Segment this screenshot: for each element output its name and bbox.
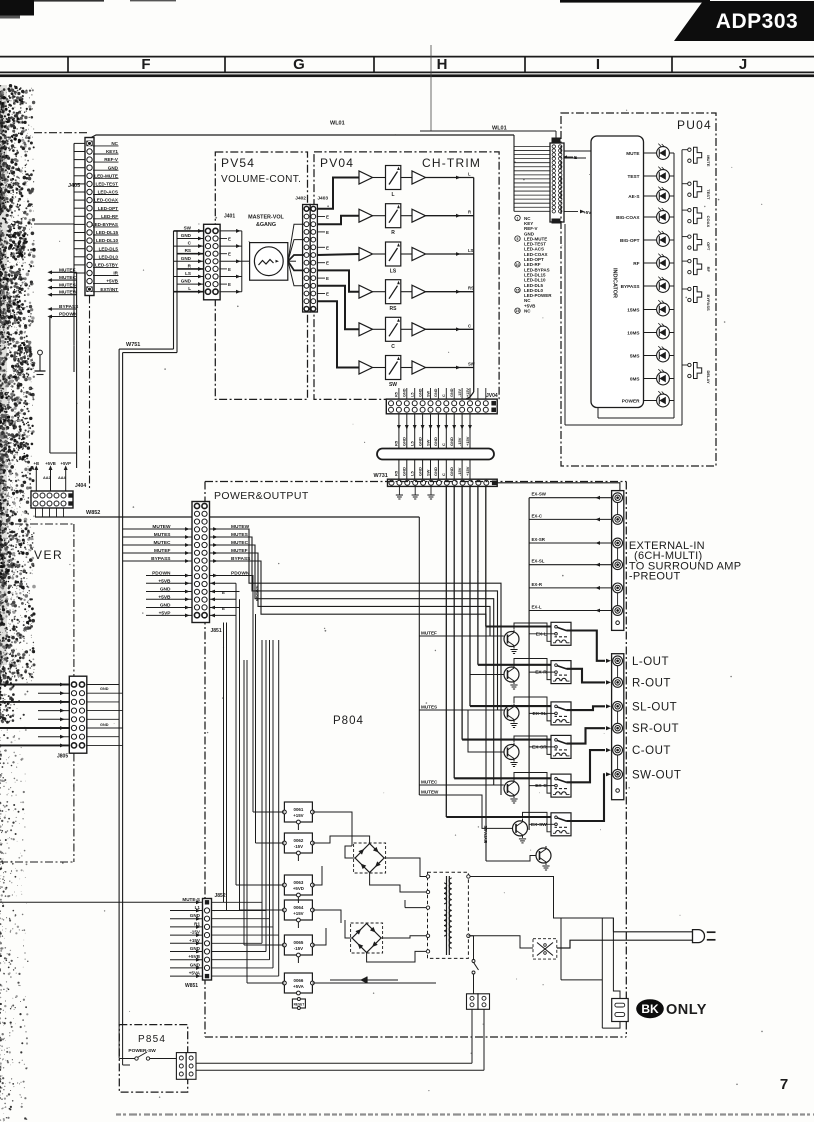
svg-text:BYPASS: BYPASS [621, 284, 640, 289]
svg-text:PDOWN: PDOWN [255, 586, 260, 601]
svg-text:SW: SW [389, 382, 397, 388]
svg-text:GND: GND [433, 437, 438, 446]
svg-text:LED-DL0: LED-DL0 [99, 254, 119, 259]
svg-text:POWER&OUTPUT: POWER&OUTPUT [214, 490, 309, 502]
svg-text:PDOWN: PDOWN [59, 312, 78, 318]
svg-text:J: J [739, 56, 747, 73]
svg-text:-15V: -15V [190, 930, 201, 935]
svg-text:GND: GND [434, 388, 438, 397]
svg-text:C: C [441, 473, 446, 476]
svg-text:LED-RF: LED-RF [101, 214, 118, 219]
svg-text:E: E [326, 230, 329, 235]
svg-text:J404: J404 [75, 483, 86, 489]
svg-text:E: E [326, 261, 329, 266]
svg-text:GND: GND [418, 388, 422, 397]
svg-text:COAX: COAX [706, 216, 711, 228]
svg-text:MUTES: MUTES [59, 283, 77, 289]
svg-text:AE-S: AE-S [628, 194, 639, 199]
svg-text:PU04: PU04 [677, 118, 712, 132]
svg-text:LS: LS [185, 271, 191, 276]
svg-text:0MS: 0MS [630, 377, 640, 382]
svg-text:W852: W852 [86, 510, 100, 516]
svg-text:I: I [596, 56, 600, 73]
svg-text:E: E [326, 215, 329, 220]
svg-text:L5: L5 [410, 471, 415, 476]
svg-text:MUTES: MUTES [421, 705, 437, 710]
svg-text:J403: J403 [317, 196, 328, 202]
svg-text:E: E [326, 292, 329, 297]
svg-text:SW: SW [425, 469, 430, 476]
svg-text:BIG-COAX: BIG-COAX [616, 215, 640, 220]
svg-text:+5VB: +5VB [45, 461, 56, 466]
svg-text:BYPASS: BYPASS [483, 825, 488, 843]
svg-text:GND: GND [190, 913, 201, 918]
svg-text:RS: RS [185, 248, 191, 253]
svg-text:POWER: POWER [622, 399, 640, 404]
svg-text:NC: NC [524, 309, 531, 314]
svg-text:W851: W851 [185, 983, 198, 989]
svg-text:C: C [391, 344, 395, 350]
svg-text:REF-V: REF-V [104, 157, 119, 162]
svg-text:W731: W731 [374, 473, 388, 479]
svg-text:MUTEF: MUTEF [421, 631, 437, 636]
svg-text:SW: SW [184, 225, 192, 230]
svg-text:E: E [228, 282, 231, 287]
svg-text:LED-TEST: LED-TEST [96, 182, 119, 187]
svg-text:5: 5 [517, 237, 519, 241]
svg-text:J852: J852 [215, 893, 226, 899]
svg-text:LED-BYPAS: LED-BYPAS [92, 222, 118, 227]
svg-text:+5VP: +5VP [61, 461, 72, 466]
svg-text:LS: LS [390, 269, 397, 275]
svg-text:LED-DL10: LED-DL10 [96, 238, 118, 243]
svg-text:BIG-OPT: BIG-OPT [620, 238, 640, 243]
svg-text:GND: GND [449, 437, 454, 446]
svg-text:F: F [141, 56, 150, 73]
svg-text:TEST: TEST [706, 189, 711, 200]
svg-text:VOLUME-CONT.: VOLUME-CONT. [221, 174, 301, 185]
svg-text:+15V: +15V [465, 436, 470, 446]
svg-text:LS: LS [468, 248, 474, 253]
svg-text:MUTEC: MUTEC [59, 275, 77, 281]
svg-text:AA2: AA2 [43, 476, 51, 480]
svg-text:-15V: -15V [457, 467, 462, 476]
svg-text:+15V: +15V [465, 466, 470, 476]
svg-text:+15V: +15V [189, 938, 201, 943]
svg-text:P804: P804 [333, 715, 364, 727]
svg-text:15MS: 15MS [627, 308, 639, 313]
svg-text:R5: R5 [394, 470, 399, 476]
svg-text:NC: NC [111, 141, 118, 146]
svg-text:E: E [228, 267, 231, 272]
svg-text:-15V: -15V [457, 437, 462, 446]
svg-text:+15V: +15V [466, 388, 470, 397]
svg-text:WL01: WL01 [330, 121, 345, 127]
svg-text:GND: GND [402, 437, 407, 446]
svg-text:GND: GND [403, 388, 407, 397]
svg-text:L5: L5 [411, 393, 415, 397]
svg-text:5MS: 5MS [630, 354, 640, 359]
svg-text:GND: GND [450, 388, 454, 397]
svg-text:MUTE: MUTE [626, 151, 639, 156]
svg-text:C: C [468, 323, 471, 328]
svg-text:LED-OPT: LED-OPT [98, 206, 118, 211]
svg-text:+5VA: +5VA [189, 971, 201, 976]
svg-text:RS: RS [390, 306, 398, 312]
svg-text:GND: GND [402, 467, 407, 476]
svg-text:L: L [391, 192, 394, 198]
svg-text:INDICATOR: INDICATOR [612, 268, 618, 298]
svg-text:GND: GND [433, 467, 438, 476]
svg-text:MASTER-VOL: MASTER-VOL [248, 215, 284, 221]
svg-text:JV04: JV04 [486, 393, 498, 399]
svg-text:L: L [468, 172, 471, 177]
svg-text:GND: GND [190, 962, 201, 967]
svg-text:R5: R5 [394, 440, 399, 446]
svg-text:+VB: +VB [30, 358, 34, 366]
svg-text:J405: J405 [68, 183, 80, 189]
svg-text:LED-STBY: LED-STBY [95, 263, 118, 268]
svg-text:MUTEW: MUTEW [421, 790, 439, 795]
svg-text:E: E [222, 590, 225, 595]
svg-text:-15V: -15V [458, 389, 462, 397]
svg-text:LED-MUTE: LED-MUTE [94, 173, 118, 178]
svg-text:CH-TRIM: CH-TRIM [422, 156, 481, 170]
svg-text:H: H [437, 56, 448, 73]
svg-text:GND: GND [181, 256, 192, 261]
svg-text:OPT: OPT [706, 242, 711, 251]
svg-text:GND: GND [108, 165, 119, 170]
svg-text:10: 10 [516, 263, 520, 267]
svg-text:E: E [228, 252, 231, 257]
svg-text:MUTEC: MUTEC [421, 780, 438, 785]
svg-text:GND: GND [417, 467, 422, 476]
svg-text:+5VB: +5VB [188, 954, 200, 959]
svg-text:G: G [293, 56, 305, 73]
svg-text:KEY1: KEY1 [106, 149, 118, 154]
svg-text:19: 19 [516, 309, 520, 313]
svg-text:IR: IR [113, 271, 118, 276]
svg-text:J851: J851 [211, 628, 222, 634]
svg-text:R: R [468, 210, 471, 215]
svg-text:BYPASS: BYPASS [706, 295, 711, 311]
svg-text:E: E [326, 276, 329, 281]
svg-text:GND: GND [100, 723, 109, 727]
svg-text:GND: GND [100, 687, 109, 691]
svg-text:J805: J805 [57, 754, 68, 760]
svg-text:ADP303: ADP303 [716, 10, 798, 33]
svg-text:GND: GND [190, 946, 201, 951]
svg-text:1: 1 [517, 217, 519, 221]
svg-text:R: R [391, 230, 395, 236]
svg-text:LED-ACS: LED-ACS [98, 190, 118, 195]
svg-text:PV54: PV54 [221, 156, 255, 170]
svg-text:SW: SW [425, 439, 430, 446]
svg-text:C: C [441, 443, 446, 446]
svg-text:MUTE: MUTE [706, 155, 711, 167]
svg-text:VER: VER [34, 548, 63, 562]
svg-text:PV04: PV04 [320, 156, 354, 170]
svg-text:MUTEF: MUTEF [59, 267, 76, 273]
svg-text:RF: RF [633, 261, 639, 266]
svg-text:+B: +B [34, 461, 39, 466]
svg-text:E: E [228, 237, 231, 242]
svg-text:10MS: 10MS [627, 331, 639, 336]
svg-text:J402: J402 [295, 196, 306, 202]
svg-text:GND: GND [181, 279, 192, 284]
svg-text:L: L [188, 286, 191, 291]
svg-text:E: E [326, 245, 329, 250]
svg-text:&GANG: &GANG [256, 222, 276, 228]
svg-text:E: E [222, 606, 225, 611]
svg-text:C: C [442, 394, 446, 397]
svg-text:LED-COAX: LED-COAX [94, 198, 119, 203]
svg-text:GND: GND [417, 437, 422, 446]
svg-text:L5: L5 [410, 441, 415, 446]
svg-text:MUTEW: MUTEW [59, 290, 78, 296]
svg-text:TEST: TEST [628, 174, 640, 179]
svg-text:+5VB: +5VB [106, 279, 118, 284]
svg-text:AA4: AA4 [58, 476, 66, 480]
svg-text:EXT/INT: EXT/INT [100, 287, 118, 292]
svg-text:SW: SW [426, 390, 430, 397]
svg-text:R5: R5 [395, 392, 399, 397]
svg-text:EX-L: EX-L [536, 631, 547, 637]
svg-text:W751: W751 [126, 342, 140, 348]
svg-text:LED-DL5: LED-DL5 [99, 246, 119, 251]
svg-text:RF: RF [706, 267, 711, 273]
svg-text:15: 15 [516, 289, 520, 293]
svg-text:GND: GND [449, 467, 454, 476]
svg-text:LED-DL15: LED-DL15 [96, 230, 118, 235]
svg-text:DELAY: DELAY [706, 371, 711, 385]
svg-text:GND: GND [181, 233, 192, 238]
svg-text:J401: J401 [224, 214, 235, 220]
